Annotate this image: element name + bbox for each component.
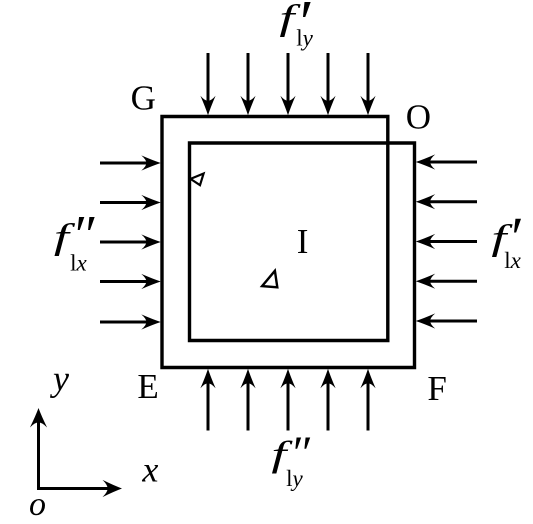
left load arrow 1 (f''_lx) — [100, 155, 161, 170]
slab element boundary: two overlapping squares G-O-F-E — [162, 117, 415, 368]
svg-text:y: y — [50, 359, 69, 399]
right load arrow 3 (f'_lx) — [416, 234, 477, 249]
svg-text:lx: lx — [504, 248, 521, 273]
svg-text:E: E — [137, 367, 158, 406]
svg-text:x: x — [141, 450, 158, 490]
left load arrow 3 (f''_lx) — [100, 234, 161, 249]
left load arrow 5 (f''_lx) — [100, 314, 161, 329]
y-axis arrow — [30, 408, 47, 489]
svg-text:ly: ly — [296, 26, 313, 51]
top load arrow 1 (f'_ly) — [200, 53, 215, 115]
load label f&#8242;_lx (right) — [491, 205, 521, 273]
svg-text:G: G — [131, 79, 156, 118]
right load arrow 1 (f'_lx) — [416, 154, 477, 169]
load label f&#8242;_ly (top) — [279, 0, 313, 57]
svg-text:ly: ly — [286, 466, 303, 491]
bottom load arrow 2 (f''_ly) — [240, 369, 255, 431]
load label f&#8243;_lx (left) — [54, 204, 95, 276]
load label f&#8243;_ly (bottom) — [271, 427, 310, 491]
svg-text:O: O — [406, 98, 431, 137]
bottom load arrow 3 (f''_ly) — [280, 369, 295, 431]
svg-text:lx: lx — [70, 251, 87, 276]
svg-text:o: o — [29, 486, 46, 523]
top load arrow 4 (f'_ly) — [320, 53, 335, 115]
bottom load arrow 1 (f''_ly) — [200, 369, 215, 431]
small triangle marker below centre — [262, 271, 277, 288]
bottom load arrow 5 (f''_ly) — [360, 369, 375, 431]
right load arrow 5 (f'_lx) — [416, 313, 477, 328]
svg-text:I: I — [297, 222, 309, 261]
x-axis arrow — [37, 480, 122, 497]
small triangle marker near inner top-left corner — [191, 174, 204, 186]
top load arrow 2 (f'_ly) — [240, 53, 255, 115]
svg-text:F: F — [427, 369, 446, 408]
right load arrow 4 (f'_lx) — [416, 274, 477, 289]
left load arrow 2 (f''_lx) — [100, 195, 161, 210]
top load arrow 5 (f'_ly) — [360, 53, 375, 115]
right load arrow 2 (f'_lx) — [416, 194, 477, 209]
left load arrow 4 (f''_lx) — [100, 274, 161, 289]
top load arrow 3 (f'_ly) — [280, 53, 295, 115]
bottom load arrow 4 (f''_ly) — [320, 369, 335, 431]
